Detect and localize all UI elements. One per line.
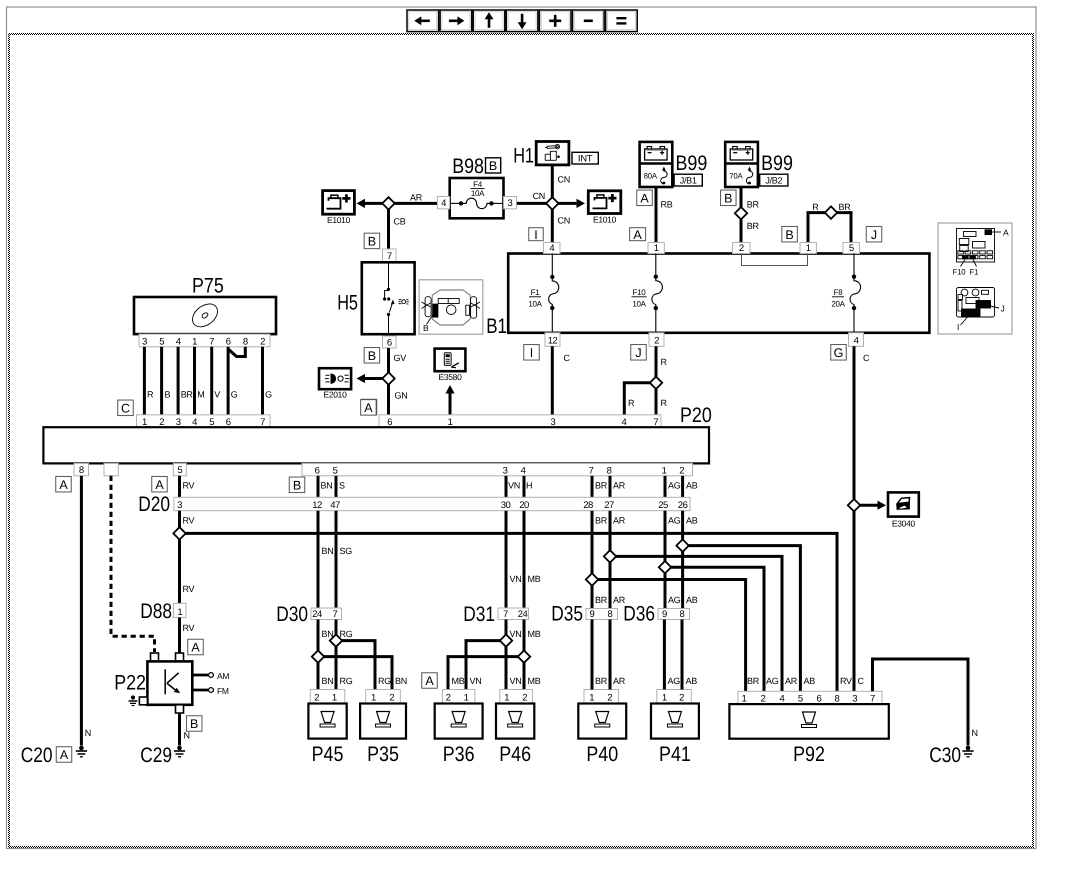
svg-text:MB: MB bbox=[528, 676, 541, 686]
battery B99 J/B1 bbox=[640, 142, 673, 187]
svg-text:A: A bbox=[640, 191, 649, 205]
B1 bottom pin 4 bbox=[849, 333, 864, 347]
svg-text:AG: AG bbox=[668, 676, 681, 686]
svg-text:BN: BN bbox=[322, 676, 334, 686]
svg-text:20A: 20A bbox=[831, 299, 845, 308]
svg-text:B: B bbox=[165, 390, 171, 400]
speaker P35 pin row bbox=[366, 690, 401, 704]
pin 6 box below H5 bbox=[383, 336, 397, 348]
svg-text:12: 12 bbox=[312, 500, 322, 511]
svg-text:4: 4 bbox=[549, 243, 554, 254]
svg-text:RV: RV bbox=[183, 623, 195, 633]
svg-text:F1: F1 bbox=[531, 288, 541, 297]
connector D30 bbox=[311, 608, 342, 620]
wire AG D20-25 down to D36 bbox=[664, 511, 667, 609]
svg-text:P46: P46 bbox=[499, 743, 531, 766]
svg-text:F4: F4 bbox=[473, 180, 483, 189]
node AG bus bbox=[665, 567, 764, 691]
svg-text:2: 2 bbox=[314, 693, 319, 704]
svg-text:4: 4 bbox=[441, 198, 446, 209]
svg-text:1: 1 bbox=[742, 694, 747, 705]
wire AB D20-26 down to D36 bbox=[681, 511, 684, 609]
wire R B1 pin2 down bbox=[655, 346, 658, 415]
node RG branch to P35 bbox=[336, 641, 375, 690]
B1 top pin 1b bbox=[800, 243, 816, 254]
svg-text:8: 8 bbox=[607, 466, 612, 477]
pin 7 box above H5 bbox=[383, 249, 397, 262]
svg-text:RG: RG bbox=[340, 629, 353, 639]
svg-text:70A: 70A bbox=[729, 171, 743, 180]
node AR/CB junction bbox=[382, 197, 394, 209]
svg-text:BR: BR bbox=[595, 481, 608, 491]
switch H5 bbox=[362, 262, 415, 334]
svg-text:9: 9 bbox=[590, 609, 595, 620]
INT box bbox=[572, 152, 598, 164]
svg-text:GV: GV bbox=[394, 353, 407, 363]
wire BR D20-28 down to D35 bbox=[591, 511, 594, 609]
node AB bus bbox=[683, 546, 801, 692]
svg-text:R: R bbox=[661, 357, 668, 367]
svg-text:D30: D30 bbox=[276, 603, 308, 626]
speaker P40 pin row bbox=[584, 690, 619, 704]
B1 top pin 4 bbox=[544, 243, 561, 254]
svg-text:B99: B99 bbox=[761, 152, 793, 175]
connector I box below bbox=[524, 345, 540, 361]
svg-text:RV: RV bbox=[183, 516, 195, 526]
svg-text:J: J bbox=[871, 228, 877, 242]
svg-text:8: 8 bbox=[835, 694, 840, 705]
connector row C (P75 side) bbox=[137, 415, 271, 427]
svg-text:BR: BR bbox=[747, 221, 760, 231]
svg-text:30: 30 bbox=[501, 500, 511, 511]
svg-text:F10: F10 bbox=[633, 288, 647, 297]
svg-text:7: 7 bbox=[589, 466, 594, 477]
svg-text:A: A bbox=[191, 641, 200, 655]
wire arrow to E1010 left bbox=[364, 202, 389, 205]
svg-text:B98: B98 bbox=[452, 155, 484, 178]
connector A box bbox=[422, 673, 438, 689]
svg-text:6: 6 bbox=[387, 337, 392, 348]
svg-text:I: I bbox=[530, 346, 533, 360]
svg-text:RB: RB bbox=[661, 200, 673, 210]
P20 unlabeled pin below bbox=[104, 463, 118, 475]
svg-text:RV: RV bbox=[840, 676, 852, 686]
B1 bottom pin 12 bbox=[545, 333, 560, 347]
phone symbol E3580 bbox=[435, 349, 466, 372]
wire MB D20-20 to D31-24 bbox=[523, 511, 526, 608]
svg-text:MB: MB bbox=[528, 574, 541, 584]
svg-text:24: 24 bbox=[312, 609, 322, 620]
svg-text:B: B bbox=[785, 228, 793, 242]
svg-text:C: C bbox=[858, 676, 865, 686]
wire VN D20-30 to D31-7 bbox=[505, 511, 508, 608]
svg-text:MB: MB bbox=[452, 676, 465, 686]
svg-text:M: M bbox=[197, 390, 204, 400]
lamp symbol E2010 bbox=[319, 368, 351, 389]
P22 side ground bbox=[131, 695, 135, 699]
svg-text:8: 8 bbox=[608, 609, 613, 620]
svg-text:2: 2 bbox=[260, 336, 265, 347]
node CN junction bbox=[546, 197, 558, 209]
svg-text:R: R bbox=[628, 398, 635, 408]
svg-text:RG: RG bbox=[378, 676, 391, 686]
svg-text:6: 6 bbox=[817, 694, 822, 705]
node AR bus bbox=[610, 556, 782, 691]
svg-text:2: 2 bbox=[761, 694, 766, 705]
connector A box bbox=[637, 190, 653, 206]
svg-text:C29: C29 bbox=[140, 744, 172, 767]
svg-text:AM: AM bbox=[217, 671, 229, 681]
svg-text:B: B bbox=[368, 349, 376, 363]
svg-text:1: 1 bbox=[464, 693, 469, 704]
svg-text:2: 2 bbox=[607, 693, 612, 704]
svg-text:4: 4 bbox=[780, 694, 785, 705]
svg-text:P40: P40 bbox=[586, 743, 618, 766]
svg-text:CB: CB bbox=[394, 217, 406, 227]
svg-text:1: 1 bbox=[806, 243, 811, 254]
fuse box B98 bbox=[450, 178, 504, 218]
svg-text:INT: INT bbox=[578, 153, 593, 164]
svg-text:BN: BN bbox=[322, 629, 334, 639]
svg-text:8: 8 bbox=[680, 609, 685, 620]
wire C B1 pin4 down to E3040 node bbox=[853, 346, 856, 505]
svg-text:10A: 10A bbox=[471, 189, 485, 198]
wire C to P92 pin 3 bbox=[853, 505, 856, 691]
node on BR wire bbox=[735, 207, 747, 219]
fuse F1 bbox=[551, 254, 553, 277]
svg-text:RG: RG bbox=[340, 676, 353, 686]
svg-text:R: R bbox=[147, 390, 154, 400]
ground C20 bbox=[79, 746, 84, 751]
wire RV D88 to P22 bbox=[178, 618, 181, 654]
node VN branch to P36 bbox=[466, 641, 506, 690]
svg-text:4: 4 bbox=[176, 336, 181, 347]
svg-text:BN: BN bbox=[395, 676, 407, 686]
B1 top pin 1 bbox=[648, 243, 664, 254]
wire GV/GN H5 to P20 pin 6 bbox=[387, 348, 390, 415]
connector J box right leg bbox=[866, 226, 882, 242]
amplifier P92 bbox=[729, 704, 888, 739]
connector A box bbox=[152, 476, 168, 492]
svg-text:C: C bbox=[121, 401, 130, 415]
node MB branch to P36 bbox=[448, 657, 524, 690]
fuse box B1 bbox=[508, 254, 929, 333]
svg-text:10A: 10A bbox=[632, 299, 646, 308]
svg-text:AR: AR bbox=[613, 516, 626, 526]
component locator inset box bbox=[938, 223, 1012, 334]
svg-text:H1: H1 bbox=[513, 145, 534, 168]
svg-text:J: J bbox=[1001, 304, 1005, 314]
svg-text:2: 2 bbox=[679, 466, 684, 477]
connector A box bbox=[56, 476, 72, 492]
svg-text:BR: BR bbox=[839, 202, 852, 212]
svg-text:1: 1 bbox=[177, 607, 182, 618]
svg-text:N: N bbox=[85, 728, 91, 738]
wires below D36 to P41 bbox=[663, 620, 666, 690]
svg-text:7: 7 bbox=[870, 694, 875, 705]
svg-text:28: 28 bbox=[583, 500, 593, 511]
svg-text:A: A bbox=[1003, 227, 1009, 237]
P92 pin row bbox=[738, 691, 882, 704]
svg-text:P20: P20 bbox=[680, 404, 712, 427]
svg-text:I: I bbox=[957, 322, 959, 332]
svg-text:D36: D36 bbox=[623, 603, 655, 626]
svg-text:7: 7 bbox=[387, 251, 392, 262]
svg-text:P75: P75 bbox=[192, 275, 224, 298]
node E3040 bbox=[848, 499, 860, 511]
svg-text:4: 4 bbox=[521, 466, 526, 477]
svg-text:1: 1 bbox=[504, 693, 509, 704]
B1 top pin 5 bbox=[843, 243, 860, 254]
wire CN B98 pin3 to node bbox=[516, 202, 552, 205]
svg-text:AR: AR bbox=[613, 481, 626, 491]
svg-text:BN: BN bbox=[322, 546, 334, 556]
connector B box left leg bbox=[782, 226, 798, 242]
car locator inset bbox=[419, 280, 483, 334]
svg-text:1: 1 bbox=[371, 693, 376, 704]
svg-text:3: 3 bbox=[503, 466, 508, 477]
svg-text:E2010: E2010 bbox=[323, 389, 347, 399]
B1 bottom pin 2 bbox=[649, 333, 664, 347]
svg-text:B: B bbox=[190, 717, 198, 731]
svg-text:1: 1 bbox=[332, 693, 337, 704]
svg-text:BN: BN bbox=[321, 481, 333, 491]
connector J box below bbox=[631, 345, 647, 361]
jumper pins 6-8 bbox=[228, 347, 245, 357]
svg-text:P92: P92 bbox=[793, 743, 825, 766]
J/B1 box bbox=[674, 174, 702, 186]
svg-text:R: R bbox=[812, 202, 819, 212]
ground C30 bbox=[966, 746, 971, 751]
svg-text:B: B bbox=[724, 191, 732, 205]
svg-text:S: S bbox=[339, 481, 345, 491]
pin 3 of B98 bbox=[504, 197, 517, 209]
wire N P92 pin7 to C30 bbox=[873, 659, 969, 746]
svg-text:F1: F1 bbox=[970, 268, 979, 277]
fuse F10 bbox=[655, 254, 657, 277]
dashed wire P20 to P22 bbox=[111, 476, 155, 652]
svg-text:VN: VN bbox=[508, 481, 520, 491]
inner dithered border bbox=[8, 33, 1034, 35]
R branch to pin 4 bbox=[624, 383, 656, 415]
J/B2 box bbox=[760, 174, 788, 186]
speaker P41 pin row bbox=[657, 690, 692, 704]
connector C box bbox=[118, 400, 134, 416]
wire AR D20-27 down to D35 bbox=[609, 511, 612, 609]
speaker P35 bbox=[360, 704, 406, 739]
svg-text:2: 2 bbox=[446, 693, 451, 704]
svg-text:3: 3 bbox=[852, 694, 857, 705]
speaker P36 bbox=[435, 704, 483, 739]
svg-text:A: A bbox=[59, 478, 68, 492]
svg-text:26: 26 bbox=[678, 500, 688, 511]
node on bridge bbox=[825, 206, 837, 218]
svg-text:BR: BR bbox=[181, 390, 194, 400]
svg-text:AB: AB bbox=[804, 676, 816, 686]
svg-text:8: 8 bbox=[243, 336, 248, 347]
svg-text:5: 5 bbox=[333, 466, 338, 477]
svg-text:B: B bbox=[489, 159, 497, 173]
svg-text:1: 1 bbox=[662, 693, 667, 704]
svg-text:B1: B1 bbox=[486, 315, 507, 338]
wires below D31 bbox=[505, 620, 508, 690]
wire BN D20-12 to D30-24 bbox=[317, 511, 320, 608]
svg-text:B: B bbox=[293, 478, 301, 492]
svg-text:AG: AG bbox=[668, 481, 681, 491]
connector D36 bbox=[658, 609, 690, 620]
toolbar buttons bbox=[407, 10, 439, 32]
wire N P20 pin8 to ground C20 bbox=[80, 476, 83, 746]
svg-text:C30: C30 bbox=[929, 744, 961, 767]
svg-text:4: 4 bbox=[854, 336, 859, 347]
ground C29 bbox=[177, 746, 182, 751]
svg-text:P35: P35 bbox=[367, 743, 399, 766]
svg-text:N: N bbox=[972, 728, 978, 738]
antenna amplifier P22 bbox=[151, 653, 159, 661]
connector B box bbox=[721, 190, 737, 206]
wire RV to D88 bbox=[178, 533, 181, 603]
svg-text:G: G bbox=[265, 390, 272, 400]
svg-text:D31: D31 bbox=[463, 603, 495, 626]
svg-text:I: I bbox=[534, 228, 537, 242]
arrow up to E3580 bbox=[449, 392, 452, 415]
RV bus to P92 pin 8 bbox=[180, 533, 838, 691]
connector A box bbox=[361, 400, 377, 416]
svg-text:C: C bbox=[564, 353, 571, 363]
svg-text:A: A bbox=[60, 748, 69, 762]
connector B box of B98 bbox=[486, 158, 501, 173]
svg-text:9: 9 bbox=[662, 609, 667, 620]
radio P20 bbox=[43, 427, 709, 463]
svg-text:25: 25 bbox=[658, 500, 668, 511]
svg-text:7: 7 bbox=[503, 609, 508, 620]
svg-text:AR: AR bbox=[410, 193, 423, 203]
svg-text:SG: SG bbox=[340, 546, 353, 556]
wires below D35 to P40 bbox=[591, 620, 594, 690]
svg-text:F10: F10 bbox=[953, 268, 967, 277]
svg-text:P36: P36 bbox=[443, 743, 475, 766]
wire RV D20 pin3 down bbox=[178, 511, 181, 534]
svg-text:N: N bbox=[184, 731, 190, 741]
connector I box bbox=[529, 228, 544, 241]
speaker P36 pin row bbox=[442, 690, 475, 704]
battery symbol E1010 left bbox=[323, 191, 355, 215]
pin 4 of B98 bbox=[437, 197, 449, 209]
arrow to E2010 bbox=[364, 377, 389, 380]
CD changer P75 bbox=[134, 297, 276, 334]
arrow to E3040 bbox=[854, 504, 881, 507]
svg-text:J: J bbox=[635, 346, 641, 360]
svg-text:3: 3 bbox=[142, 336, 147, 347]
svg-text:E3580: E3580 bbox=[438, 372, 462, 382]
speaker P41 bbox=[651, 704, 699, 739]
svg-text:5: 5 bbox=[798, 694, 803, 705]
connector strip D20 bbox=[174, 497, 690, 510]
svg-text:D20: D20 bbox=[138, 493, 170, 516]
svg-text:VN: VN bbox=[510, 574, 522, 584]
connector A box bbox=[630, 228, 646, 241]
svg-text:R: R bbox=[661, 398, 668, 408]
svg-text:FM: FM bbox=[217, 686, 229, 696]
svg-text:J/B1: J/B1 bbox=[680, 175, 697, 185]
svg-text:24: 24 bbox=[518, 609, 528, 620]
svg-text:CN: CN bbox=[558, 175, 570, 185]
P20 pin 8 below bbox=[74, 463, 89, 475]
svg-text:A: A bbox=[425, 674, 434, 688]
fuse F8 bbox=[853, 254, 855, 277]
svg-text:B99: B99 bbox=[676, 152, 708, 175]
svg-text:2: 2 bbox=[389, 693, 394, 704]
connector row A (right side) bbox=[379, 415, 661, 427]
svg-text:AG: AG bbox=[766, 676, 779, 686]
wire AR from node to B98 pin 4 bbox=[389, 202, 438, 205]
svg-text:7: 7 bbox=[333, 609, 338, 620]
speaker P46 pin row bbox=[500, 690, 533, 704]
svg-text:P22: P22 bbox=[114, 672, 146, 695]
node RV bbox=[173, 527, 185, 539]
svg-text:C20: C20 bbox=[21, 744, 53, 767]
svg-text:E3040: E3040 bbox=[892, 519, 916, 529]
svg-text:F8: F8 bbox=[834, 288, 844, 297]
svg-text:3: 3 bbox=[177, 500, 182, 511]
node BN branch to P35 bbox=[318, 657, 392, 690]
svg-text:B: B bbox=[423, 323, 429, 333]
svg-text:V: V bbox=[214, 390, 220, 400]
speaker P45 pin row bbox=[310, 690, 345, 704]
svg-text:BR: BR bbox=[595, 516, 608, 526]
svg-text:80A: 80A bbox=[644, 171, 658, 180]
speaker P45 bbox=[308, 704, 346, 739]
svg-text:D35: D35 bbox=[551, 603, 583, 626]
svg-text:C: C bbox=[863, 353, 870, 363]
svg-text:A: A bbox=[155, 478, 164, 492]
ignition switch H1 bbox=[536, 142, 569, 165]
node BR bus bbox=[592, 580, 746, 692]
svg-text:CN: CN bbox=[533, 191, 545, 201]
wires below D30 bbox=[317, 620, 320, 690]
connector A box bbox=[361, 399, 377, 415]
svg-text:1: 1 bbox=[654, 243, 659, 254]
svg-text:5: 5 bbox=[849, 243, 854, 254]
svg-text:AG: AG bbox=[668, 516, 681, 526]
svg-text:AR: AR bbox=[785, 676, 798, 686]
svg-text:2: 2 bbox=[679, 693, 684, 704]
svg-text:D88: D88 bbox=[140, 600, 172, 623]
svg-text:BR: BR bbox=[747, 200, 760, 210]
speaker P46 bbox=[496, 704, 534, 739]
svg-text:2: 2 bbox=[739, 243, 744, 254]
inline connector D88 bbox=[174, 603, 187, 617]
svg-text:J/B2: J/B2 bbox=[765, 175, 782, 185]
svg-text:E1010: E1010 bbox=[327, 215, 351, 225]
battery symbol E1010 right bbox=[588, 191, 621, 214]
svg-text:BR: BR bbox=[595, 676, 608, 686]
wire N P22 to C29 bbox=[178, 713, 181, 746]
svg-text:2: 2 bbox=[522, 693, 527, 704]
wire arrow to E1010 right bbox=[552, 202, 577, 205]
svg-text:H: H bbox=[526, 481, 532, 491]
svg-text:AB: AB bbox=[686, 676, 698, 686]
svg-text:AB: AB bbox=[686, 516, 698, 526]
speaker P40 bbox=[578, 704, 626, 739]
svg-text:5: 5 bbox=[177, 465, 182, 476]
svg-text:20: 20 bbox=[519, 500, 529, 511]
connector B box bbox=[186, 716, 202, 732]
B1 top pin 2 bbox=[733, 243, 751, 254]
battery B99 J/B2 bbox=[725, 142, 758, 187]
wire R/BR bridge to B1 pins 1 and 5 bbox=[808, 213, 851, 243]
AM output bbox=[192, 674, 208, 677]
